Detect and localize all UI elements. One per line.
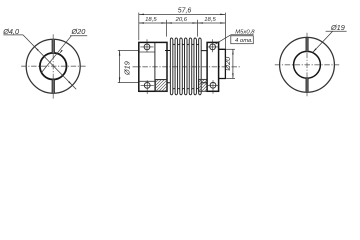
bottom clamp slit (right view) [306,78,308,92]
top clamp slit (right view) [306,38,308,52]
svg-text:57,6: 57,6 [178,8,192,15]
dimension 57,6 [139,13,226,49]
bellows valley folds [173,43,199,89]
svg-text:Ø20: Ø20 [71,27,86,36]
svg-text:18,5: 18,5 [145,17,157,23]
centerline vertical (left view) [21,34,85,98]
right hub section hatch block [198,79,207,91]
outer circle (bellows OD, left view) [26,39,80,93]
centerline horizontal (right view) [275,64,339,66]
bottom clamp slit (left view) [52,80,55,94]
left neck to bellows top line [165,51,170,83]
dimension O20 vertical right [226,49,235,78]
right neck lines from bellows [201,51,207,83]
left hub top slit line over neck [155,79,167,81]
top clamp slit (left view) [52,39,55,53]
svg-text:4 отв.: 4 отв. [235,38,253,44]
dim line diagonal for bore O4,0 [23,35,76,89]
outer circle (right view) [280,37,335,92]
left hub step line clamp/neck [154,42,156,91]
right body cylinder outline [219,49,226,78]
inner circle bold (right view) [294,51,321,78]
centerline horizontal (left view) [21,65,85,67]
left hub slit lines (side view) [139,52,155,81]
chained dimensions 18,5 / 20,6 / 18,5 [139,20,226,37]
label O4,0 with underline [2,27,23,36]
svg-text:18,5: 18,5 [204,17,216,23]
left hub outline [139,42,167,91]
screw hole top-left circle [140,39,153,52]
dimension O19 left vertical [118,50,139,82]
svg-text:Ø20: Ø20 [223,57,232,72]
screw hole top-right circle [206,39,219,52]
label O20 with underline [70,27,87,36]
inner bore circle bold (left view) [40,53,67,80]
leader M5 to screw hole [216,35,231,44]
screw hole bottom-right circle [207,80,220,94]
svg-text:20,6: 20,6 [175,17,188,23]
centerline vertical (right view) [275,33,339,96]
screw hole bottom-left circle [141,80,154,94]
frame box 4 otv [231,36,254,44]
left hub section hatch block [155,80,167,92]
right flange outline [207,42,219,91]
svg-text:Ø19: Ø19 [123,61,132,76]
svg-text:Ø19: Ø19 [330,23,345,32]
axis centerline (middle view) [133,66,241,68]
bellows corrugation loops [170,38,201,95]
dim line diagonal for O20 [42,36,72,73]
